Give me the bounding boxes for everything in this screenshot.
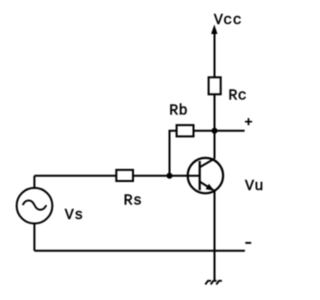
svg-text:Vs: Vs	[65, 207, 84, 224]
svg-text:Rs: Rs	[124, 193, 143, 210]
svg-text:Vu: Vu	[245, 178, 264, 195]
svg-text:Rb: Rb	[169, 103, 188, 120]
svg-text:Vcc: Vcc	[214, 12, 242, 29]
svg-text:Rc: Rc	[228, 87, 247, 104]
